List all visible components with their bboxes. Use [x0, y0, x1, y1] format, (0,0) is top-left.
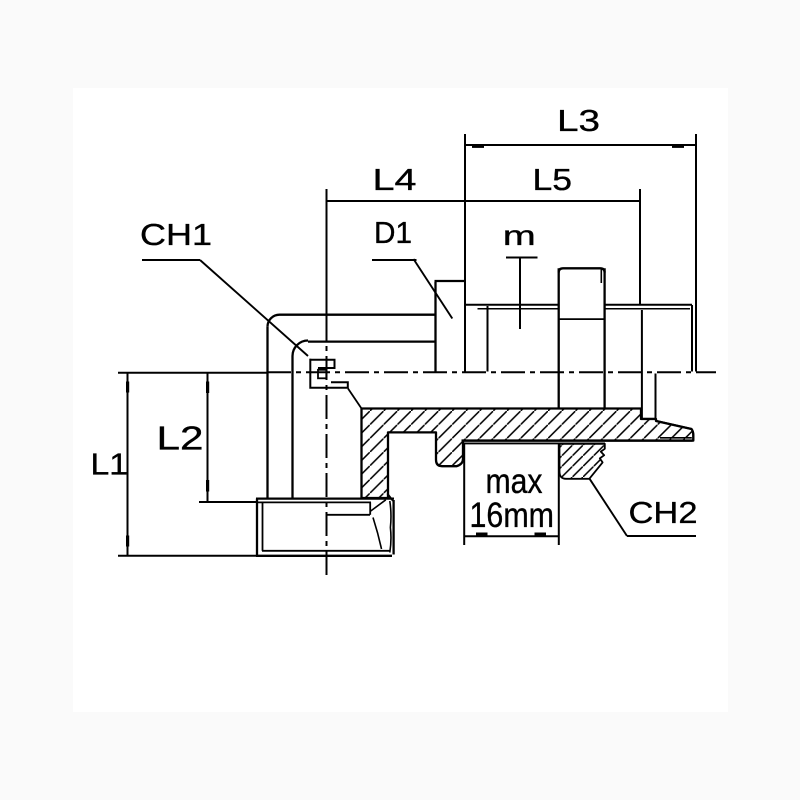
max depth dimension line [464, 535, 559, 537]
L1 tick top [126, 382, 129, 393]
nut facet vertical [369, 502, 371, 514]
dimension L3 line [465, 144, 697, 146]
nut bottom edge inner [262, 550, 390, 552]
left extension bottom L1 [118, 555, 258, 557]
washer ledge [641, 418, 656, 420]
retaining clip bottom bar [310, 359, 348, 388]
extension line L5 right [639, 189, 641, 304]
svg-text:L2: L2 [157, 419, 204, 456]
L1 tick bottom [126, 536, 129, 547]
nut top edge outer [256, 497, 394, 499]
leg column chamfer to nut [387, 493, 393, 500]
washer right lip [692, 429, 694, 440]
thread root line left (thin) [478, 308, 559, 310]
thread root line right (thin) [605, 308, 690, 310]
washer bottom main line [462, 439, 693, 441]
left extension top [118, 372, 267, 374]
hatched section: CH2 hex trapezoid [560, 444, 605, 479]
m underline [506, 257, 538, 259]
elbow outer corner arc [268, 315, 280, 327]
thread start vertical [487, 306, 489, 372]
retaining clip top bar [310, 360, 335, 368]
bore top edge [308, 340, 436, 342]
CH1 underline [142, 259, 200, 261]
D1 collar left edge [434, 282, 436, 372]
max depth box left extension [463, 443, 465, 545]
nut chamfer arc lower [373, 518, 382, 550]
dimension L4/L5 line [326, 200, 640, 202]
thread crest line right [605, 304, 692, 306]
nut right barrel contour [390, 501, 391, 553]
nut right edge outer [392, 500, 394, 555]
max depth box right extension [558, 443, 560, 545]
m pointer vertical [519, 258, 521, 330]
washer taper top [656, 421, 692, 429]
washer inner vertical [655, 374, 657, 420]
max tick left [476, 533, 488, 536]
CH1 leader [200, 260, 308, 356]
dimension L3 tick right [672, 145, 684, 148]
centerline horizontal (arm axis) [267, 371, 716, 373]
locknut right edge [603, 268, 605, 408]
arm top edge [280, 314, 436, 316]
svg-text:16mm: 16mm [470, 496, 555, 535]
hatched section: body strip + leg column + protrusion [362, 409, 694, 499]
nut bottom edge outer [256, 555, 392, 557]
locknut right chamfer contour [600, 270, 602, 284]
svg-text:L5: L5 [533, 162, 573, 197]
elbow inner corner arc [293, 341, 309, 357]
max tick right [535, 533, 547, 536]
svg-text:CH2: CH2 [629, 495, 698, 530]
extension overshoot left [326, 189, 328, 317]
dimension L3 tick left [472, 145, 484, 148]
leg outer left wall [266, 327, 268, 499]
svg-text:L1: L1 [91, 446, 129, 481]
nut chamfer diagonal upper [370, 500, 386, 512]
svg-text:CH1: CH1 [140, 217, 212, 252]
dimension L2 line [207, 373, 209, 502]
thread crest line left [465, 304, 559, 306]
L2 tick bottom [206, 480, 209, 492]
nut facet ledge [327, 514, 371, 516]
svg-text:L3: L3 [557, 103, 600, 138]
dimension L1 line [127, 373, 129, 556]
locknut left edge [558, 268, 560, 408]
port face line [464, 442, 605, 444]
D1 collar top edge [435, 280, 466, 282]
svg-text:m: m [503, 220, 536, 251]
stud end chamfer vertical [691, 305, 693, 372]
chamfer diagonal clip to strip [348, 389, 362, 409]
extension line x465 [464, 134, 466, 372]
leg inner left wall [291, 356, 293, 499]
left extension bottom L2 [199, 501, 258, 503]
drawing canvas [73, 88, 728, 712]
CH2 underline [627, 535, 696, 537]
svg-text:L4: L4 [373, 162, 417, 197]
svg-text:D1: D1 [374, 215, 412, 250]
nut left edge outer [256, 499, 258, 556]
nut top edge inner [257, 501, 371, 503]
retaining clip inner square [318, 370, 326, 379]
locknut facet line [559, 318, 605, 320]
locknut top edge [559, 268, 605, 272]
washer step vertical [641, 310, 643, 419]
washer bottom inner line [660, 437, 692, 439]
CH2 leader [590, 479, 627, 536]
centerline vertical (leg axis) [326, 317, 328, 578]
extension line x696 [695, 134, 697, 372]
D1 underline [372, 259, 417, 261]
L2 tick top [206, 382, 209, 394]
nut left edge inner [262, 502, 264, 550]
D1 leader [414, 259, 453, 319]
